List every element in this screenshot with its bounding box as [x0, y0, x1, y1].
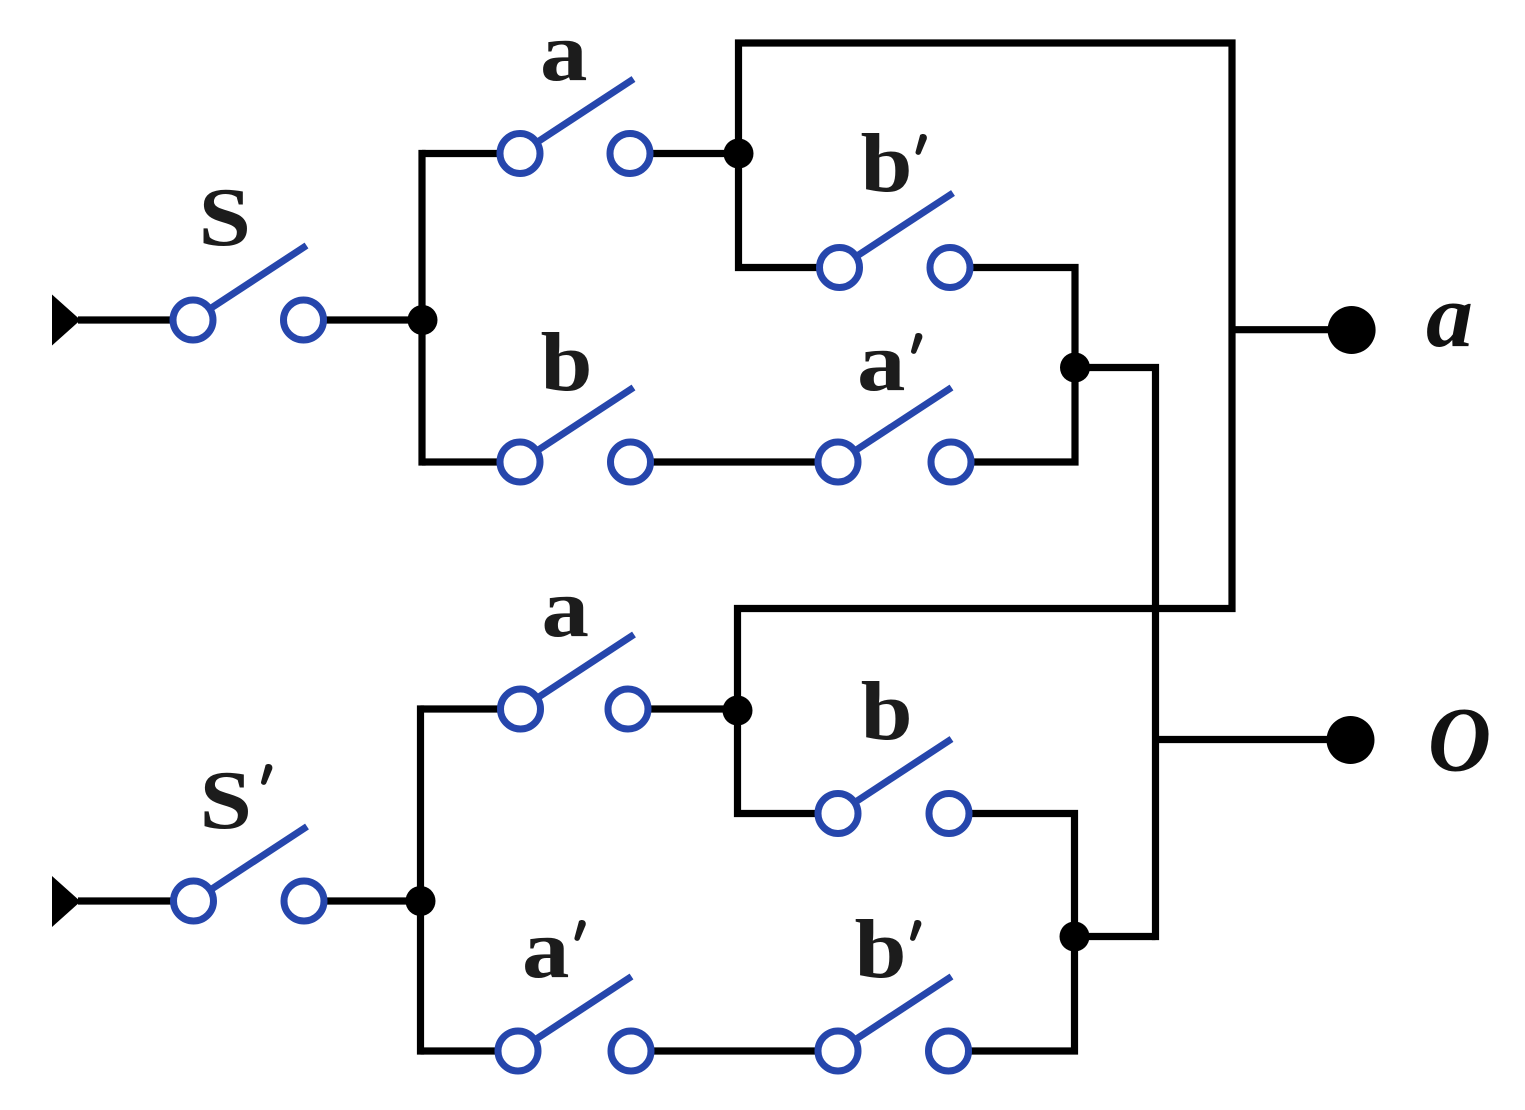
switch a' bottom lever	[535, 977, 632, 1041]
wire switch a' to switch b'	[652, 1047, 817, 1054]
svg-text:a: a	[542, 562, 590, 655]
switch b top contacts	[500, 442, 540, 482]
switch S' contacts	[174, 881, 214, 921]
wire to switch a' bottom	[421, 1047, 498, 1054]
wire switch b to switch a'	[651, 458, 817, 465]
svg-text:S: S	[200, 754, 253, 847]
wire node D vertical riser	[417, 705, 424, 1054]
wire input to switch S	[78, 316, 172, 323]
wire input to switch S'	[78, 897, 172, 904]
svg-text:a: a	[522, 903, 570, 996]
svg-text:b: b	[861, 665, 913, 758]
switch b' top lever	[856, 193, 953, 257]
input arrow top	[52, 295, 81, 346]
wire switch b' to node C	[971, 268, 1075, 368]
switch a' bottom contacts	[498, 1031, 538, 1071]
svg-text:b: b	[541, 316, 593, 409]
terminal O dot	[1327, 716, 1375, 764]
node B junction	[724, 139, 754, 169]
switch S contacts	[173, 300, 213, 340]
switch b bottom contacts	[818, 794, 858, 834]
wire output a	[1232, 326, 1333, 333]
wire switch a to node E	[649, 705, 739, 712]
wire node F to long vertical	[1075, 933, 1156, 940]
wire to switch b top	[422, 458, 499, 465]
svg-text:S: S	[199, 171, 252, 264]
switch a' top contacts	[818, 442, 858, 482]
switch b' top contacts	[820, 248, 860, 288]
switch a bottom contacts	[501, 689, 541, 729]
wire node C to long vertical	[1075, 368, 1156, 941]
switch a' top lever	[855, 388, 952, 452]
svg-text:b: b	[861, 117, 913, 210]
switch a top contacts	[500, 134, 540, 174]
wire switch b' to node F	[970, 937, 1075, 1052]
wire top bus node B up over right	[738, 43, 1233, 712]
terminal a dot	[1328, 306, 1376, 354]
wire switch a to node B	[651, 150, 740, 157]
wire S to node A	[325, 316, 424, 323]
switch S lever	[210, 246, 307, 310]
node C junction	[1060, 353, 1090, 383]
node D junction	[406, 886, 436, 916]
wire to switch a bottom	[421, 705, 500, 712]
wire S' to node D	[325, 897, 422, 904]
svg-text:a: a	[1426, 267, 1473, 366]
svg-text:a: a	[540, 6, 588, 99]
svg-text:a: a	[857, 316, 906, 409]
switch b bottom lever	[855, 739, 952, 803]
node A junction	[408, 305, 438, 335]
wire node B down to b' branch	[739, 154, 819, 268]
wire node E down to b branch	[738, 709, 818, 814]
switch a top lever	[537, 79, 634, 143]
wire switch a' to node C	[972, 368, 1075, 463]
node E junction	[723, 696, 753, 726]
node F junction	[1060, 922, 1090, 952]
switch b' bottom lever	[855, 977, 952, 1041]
wire to switch a top	[422, 150, 499, 157]
input arrow bottom	[52, 876, 81, 927]
wire node A vertical riser	[418, 150, 425, 466]
switch a bottom lever	[537, 635, 634, 699]
switch b' bottom contacts	[818, 1031, 858, 1071]
switch S' lever	[210, 827, 307, 891]
svg-text:b: b	[855, 903, 907, 996]
wire output O	[1156, 736, 1331, 743]
svg-text:O: O	[1428, 689, 1491, 791]
switch b top lever	[537, 388, 634, 452]
wire switch b to node F	[970, 814, 1075, 937]
